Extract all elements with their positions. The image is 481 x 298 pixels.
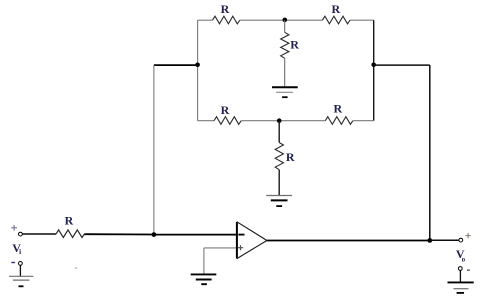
terminal circle (output +) [459, 238, 463, 242]
svg-text:R: R [221, 103, 230, 117]
wire lower rail right segment [353, 120, 374, 122]
terminal circle (output -) [458, 267, 462, 271]
wire input resistor to junction node [85, 233, 154, 235]
node output junction [427, 238, 432, 243]
terminal circle (input -) [19, 262, 23, 266]
svg-text:R: R [331, 2, 340, 16]
svg-text:R: R [333, 101, 342, 115]
wire from upper shunt resistor to ground [284, 58, 286, 87]
wire output lower terminal to ground [459, 270, 461, 282]
resistor R (lower-right of twin-T) [325, 117, 353, 125]
svg-text:o: o [462, 256, 466, 264]
terminal + (input) [11, 225, 17, 231]
resistor R (input) [56, 230, 84, 238]
ground (output) [448, 282, 474, 293]
wire from left twin-T node to feedback column [154, 64, 198, 66]
svg-text:R: R [290, 38, 299, 52]
svg-text:R: R [286, 150, 295, 164]
ground (upper shunt) [272, 87, 298, 97]
ground (input) [9, 276, 33, 286]
wire right vertical of twin-T [373, 20, 375, 121]
resistor R (upper shunt) [281, 32, 289, 58]
wire left vertical of twin-T [197, 20, 199, 121]
terminal - (input) [11, 262, 15, 264]
node right junction of twin-T [371, 63, 376, 68]
wire noninverting input down to ground [203, 248, 205, 274]
wire op-amp output to output node [267, 240, 430, 242]
wire junction node to op-amp inverting input [154, 234, 237, 236]
wire from right twin-T node to output column [374, 64, 430, 66]
node lower-middle junction [277, 118, 282, 123]
resistor R (lower shunt) [275, 143, 283, 170]
terminal circle (input +) [19, 232, 23, 236]
node top-middle junction [283, 18, 288, 23]
wire output node to output terminal [430, 239, 459, 241]
wire top rail middle segment [240, 19, 323, 21]
wire top rail left segment [198, 19, 213, 21]
wire from lower node down to shunt resistor [278, 121, 280, 143]
wire input terminal to resistor [22, 233, 56, 235]
wire top rail right segment [350, 19, 374, 21]
svg-text:i: i [19, 248, 21, 256]
node at inverting input line [152, 232, 157, 237]
wire lower rail left segment [198, 120, 214, 122]
stray mark [75, 267, 77, 268]
terminal - (output) [467, 269, 470, 271]
wire output column down to output node [429, 65, 431, 240]
ground (noninverting input) [191, 274, 217, 284]
svg-text:R: R [221, 2, 230, 16]
op-amp U1 [237, 222, 267, 259]
wire feedback column down to inverting input line [153, 65, 155, 235]
wire from top node down to shunt resistor [284, 20, 286, 32]
terminal + (output) [465, 233, 470, 238]
resistor R (top-left of twin-T) [213, 16, 240, 24]
node left junction of twin-T [195, 63, 200, 68]
wire lower rail middle segment [241, 120, 325, 122]
ground (lower shunt) [266, 196, 292, 207]
wire from lower shunt resistor to ground [278, 170, 280, 196]
wire input lower terminal to ground [19, 265, 21, 276]
svg-text:R: R [65, 213, 74, 227]
resistor R (lower-left of twin-T) [214, 117, 241, 125]
wire op-amp noninverting input [204, 247, 237, 249]
resistor R (top-right of twin-T) [322, 16, 350, 24]
